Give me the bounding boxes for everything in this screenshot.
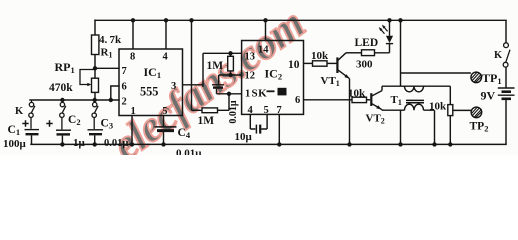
label R1 — [101, 47, 113, 60]
label VT2 — [366, 113, 385, 126]
capacitor C1 — [25, 130, 40, 145]
pin number 10 — [288, 59, 300, 71]
node: secondary left ground dot — [398, 142, 402, 146]
wire: pin6 link — [111, 86, 119, 100]
wire: dot down to 1M horizontal — [228, 94, 230, 111]
node: C2 C3 ground dots — [60, 142, 97, 146]
resistor R5 300 — [362, 50, 375, 56]
label C1 value 100u — [3, 138, 27, 150]
wire: IC2 pin7 to ground — [278, 114, 280, 144]
svg-text:SK: SK — [252, 88, 268, 100]
wire: rail drop to TP1 line — [400, 20, 402, 86]
node: secondary right ground dot — [432, 142, 436, 146]
wire: IC1 pin5 to C4 — [163, 116, 165, 127]
label 1M (horizontal resistor) — [198, 115, 215, 127]
svg-text:0.01μ: 0.01μ — [176, 148, 202, 156]
capacitor C4 — [155, 127, 177, 144]
svg-text:10k: 10k — [429, 101, 447, 113]
resistor R1 — [92, 35, 99, 55]
label 10k (transformer) — [429, 101, 447, 113]
switch K1 (left) — [29, 100, 35, 129]
label T1 — [391, 94, 402, 107]
node: rail dot TP1 branch — [398, 18, 402, 22]
wire: secondary right leg to ground — [424, 110, 435, 144]
node: rail junctions — [60, 98, 113, 102]
label TP2 — [470, 121, 489, 134]
svg-text:10: 10 — [288, 59, 300, 71]
battery GB 9V — [498, 88, 515, 99]
LED D1 — [386, 20, 393, 43]
svg-text:5: 5 — [264, 105, 269, 116]
transformer T1 core — [406, 100, 424, 102]
resistor R6 10k (VT2 base) — [352, 97, 367, 102]
wire: IC2 pin14 supply stub — [265, 20, 267, 40]
svg-text:4: 4 — [248, 105, 254, 116]
wire: pin 8 stub — [132, 20, 134, 49]
wire: pin7 wire to IC1 — [95, 67, 119, 69]
capacitor C5 coupling — [212, 85, 224, 94]
node: rail dot pin8 — [131, 18, 135, 22]
svg-text:1M: 1M — [207, 60, 224, 72]
label 0.01u rotated — [228, 100, 239, 124]
node: pin7 ground dot — [277, 142, 281, 146]
transformer T1 primary winding — [405, 86, 424, 92]
label 10u — [235, 131, 253, 143]
svg-text:12: 12 — [245, 71, 256, 82]
wire: resistor to VT2 base — [367, 99, 371, 101]
resistor R3 1M (horizontal) — [192, 108, 230, 113]
wire: pin1 wire of IC2 — [217, 93, 242, 95]
node: 10k ground dot — [448, 142, 452, 146]
label C4 value 0.01u — [176, 148, 202, 160]
wire: R1 to RP1 junction — [94, 55, 96, 79]
wire: capacitor select rail to IC1 pin2 — [30, 99, 119, 101]
wire: RP1 bottom to cap rail — [94, 92, 96, 100]
pin number 2 — [122, 97, 127, 108]
svg-text:1: 1 — [131, 106, 136, 117]
svg-text:300: 300 — [356, 58, 373, 70]
wire: pin13 wire — [203, 52, 242, 54]
wire: IC1 pin1 to ground — [131, 116, 133, 145]
label RP1 — [55, 60, 75, 75]
wire: rail drop to 1M feedback chain — [191, 20, 193, 110]
svg-text:K: K — [494, 50, 503, 61]
label C2 — [68, 114, 81, 127]
IC U2 SK-II box — [242, 41, 304, 115]
svg-text:0.01μ: 0.01μ — [104, 138, 128, 149]
svg-text:7: 7 — [277, 105, 282, 116]
svg-text:10k: 10k — [311, 50, 329, 62]
transistor VT1 — [337, 53, 349, 79]
transformer T1 primary line — [382, 85, 450, 87]
label 555 — [140, 84, 158, 98]
svg-text:555: 555 — [140, 84, 158, 98]
label SK-II — [252, 88, 287, 100]
watermark — [103, 0, 313, 170]
wire: secondary left leg to ground — [400, 110, 402, 144]
pin number 3 — [171, 81, 176, 92]
capacitor C3 — [88, 130, 104, 145]
node: pin1 wire dot — [227, 92, 231, 96]
label 9V — [481, 88, 496, 102]
label K (right switch) — [494, 50, 503, 61]
capacitor C7 10u under IC2 — [250, 114, 267, 133]
svg-text:3: 3 — [171, 81, 176, 92]
node: C4 ground dot — [161, 142, 165, 146]
label C2 value 1u — [73, 137, 86, 149]
wire: TP1 horizontal wire — [401, 72, 471, 74]
node: VT1 emitter ground dot — [347, 142, 351, 146]
wire: VT1 collector to 300 resistor — [346, 52, 362, 54]
LED emission arrows — [380, 26, 387, 34]
node: rail dot 1M chain — [189, 18, 193, 22]
label 1M (vertical resistor) — [207, 60, 224, 72]
label RP1 value 470k — [49, 82, 73, 94]
svg-text:4. 7k: 4. 7k — [99, 34, 122, 46]
svg-text:K: K — [15, 106, 24, 117]
wire: pin12 wire — [219, 75, 242, 84]
potentiometer RP1 — [92, 78, 99, 92]
label 300 — [356, 58, 373, 70]
switch K (right) — [503, 43, 510, 67]
node: R1/RP1/pin7 junction — [93, 66, 97, 70]
svg-text:14: 14 — [258, 45, 269, 56]
switch K2 over C2 — [60, 100, 66, 129]
wire: IC2 pin6 to VT2 base resistor — [304, 99, 353, 101]
svg-text:1M: 1M — [198, 115, 215, 127]
test point TP2 — [471, 107, 482, 118]
label R1 value 4.7k — [99, 34, 122, 46]
wire: VT1 emitter to ground — [349, 79, 351, 145]
node: pin1 ground dot — [130, 142, 134, 146]
svg-text:10μ: 10μ — [235, 131, 253, 143]
wire: switch to battery — [505, 67, 507, 88]
pin number 5 (IC2) — [264, 105, 269, 116]
svg-text:LED: LED — [355, 37, 379, 49]
pin number 13 — [245, 52, 256, 63]
label 10k (VT2) — [348, 88, 366, 100]
wire: left drop from rail to R1 — [94, 20, 96, 35]
pin number 8 — [130, 52, 135, 63]
label VT1 — [321, 75, 340, 88]
plus sign C1 — [22, 120, 28, 126]
label C3 — [101, 118, 114, 131]
svg-text:9V: 9V — [481, 88, 496, 102]
label IC2 — [265, 67, 283, 82]
node: 1M bottom dot — [228, 73, 232, 77]
node: 1M top dot — [228, 51, 232, 55]
pin number 4 — [163, 52, 169, 63]
pin number 1 (IC2) — [245, 88, 250, 99]
wire: TP2 wire — [453, 109, 472, 111]
resistor R7 10k (TP2) — [448, 105, 453, 116]
resistor R2 1M (vertical) — [228, 53, 234, 75]
transformer T1 secondary winding — [405, 104, 424, 110]
wire: battery to ground rail corner — [505, 100, 507, 145]
label TP1 — [482, 71, 502, 86]
svg-text:7: 7 — [122, 66, 127, 77]
resistor R4 10k (VT1 base) — [313, 61, 328, 66]
svg-text:13: 13 — [245, 52, 256, 63]
wire: 300 resistor to LED — [375, 44, 390, 53]
svg-text:6: 6 — [295, 95, 300, 106]
svg-text:470k: 470k — [49, 82, 73, 94]
pin number 7 — [122, 66, 127, 77]
svg-text:5: 5 — [162, 106, 167, 117]
wire: IC1 pin3 output wire — [183, 84, 204, 86]
label K (left switch) — [15, 106, 24, 117]
wire: pin13 loop left leg — [202, 53, 204, 87]
pin number 6 (IC2) — [295, 95, 300, 106]
wire: 10k bottom to ground — [449, 116, 451, 145]
pin number 7 (IC2) — [277, 105, 282, 116]
node: rail dot LED — [387, 18, 391, 22]
wire: VT2 collector to transformer — [381, 86, 383, 90]
wire: bottom ground rail — [31, 143, 506, 145]
IC U1 555 box — [119, 49, 183, 116]
plus sign C2 — [46, 120, 52, 126]
label 10k (VT1) — [311, 50, 329, 62]
label C3 value 0.01u — [104, 138, 128, 149]
node: rail dot pin4 — [164, 18, 168, 22]
wire: pin 4 stub — [165, 20, 167, 49]
pin number 4 (IC2) — [248, 105, 254, 116]
svg-text:8: 8 — [130, 52, 135, 63]
svg-text:6: 6 — [122, 82, 127, 93]
test point TP1 — [471, 72, 482, 83]
svg-text:2: 2 — [122, 97, 127, 108]
pin number 6 — [122, 82, 127, 93]
svg-text:0.01μ: 0.01μ — [228, 100, 239, 124]
label LED — [355, 37, 379, 49]
wire: resistor to VT1 base — [327, 62, 337, 64]
svg-text:1: 1 — [245, 88, 250, 99]
svg-text:1μ: 1μ — [73, 137, 86, 149]
label IC1 — [144, 65, 162, 80]
potentiometer RP1 wiper arm — [80, 70, 95, 85]
switch K3 over C3 — [92, 100, 98, 129]
label C4 — [178, 127, 191, 140]
node: rail dot pin14 — [263, 18, 267, 22]
svg-text:10k: 10k — [348, 88, 366, 100]
capacitor C2 — [56, 130, 71, 144]
svg-text:100μ: 100μ — [3, 138, 27, 150]
wire: VT2 emitter to secondary — [382, 108, 405, 111]
pin number 14 — [258, 45, 269, 56]
label C1 — [8, 124, 21, 137]
pin number 1 — [131, 106, 136, 117]
transistor VT2 — [371, 91, 382, 110]
wire: primary right leg down to 10k — [449, 86, 451, 104]
svg-text:4: 4 — [163, 52, 169, 63]
pin number 5 — [162, 106, 167, 117]
wire: rail right corner down to switch K — [505, 20, 507, 43]
wire: IC2 pin10 to base resistor — [304, 62, 313, 64]
pin number 12 — [245, 71, 256, 82]
wire: top supply rail — [95, 19, 506, 21]
